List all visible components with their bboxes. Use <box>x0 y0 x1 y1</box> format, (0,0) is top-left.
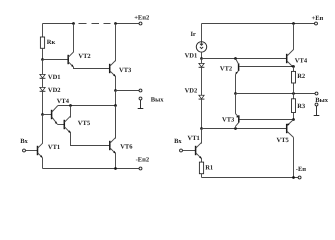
diode VD2 right <box>199 95 205 99</box>
node Rk bottom VT2 base <box>41 58 44 61</box>
svg-text:VD1: VD1 <box>185 52 198 59</box>
wire left top rail dashed <box>79 23 111 25</box>
transistor VT1 right <box>196 142 202 158</box>
wire VT3 collector up <box>115 24 117 62</box>
wire R1 to bottom rail <box>201 174 203 178</box>
wire left top rail solid <box>43 23 74 25</box>
wire VT2 emitter elbow to VT3 base <box>74 67 110 69</box>
terminal Vh right <box>180 149 183 152</box>
node bottom rail VT5 collector <box>292 176 295 179</box>
wire right bottom rail <box>202 177 299 179</box>
node right rail VT4 collector <box>292 22 295 25</box>
wire VT2 emitter down to output node <box>235 74 237 93</box>
diode VD1 left <box>40 74 46 78</box>
svg-text:VD2: VD2 <box>185 88 198 95</box>
current source Ig <box>196 42 206 52</box>
terminal Vyh left lower <box>139 97 142 100</box>
wire right top rail <box>202 23 315 25</box>
node right output R3 top <box>292 92 295 95</box>
transistor VT2 <box>68 52 73 67</box>
transistor VT4 <box>52 106 58 124</box>
wire VD2 to VT4 base node <box>42 91 44 114</box>
wire right output line <box>236 93 316 95</box>
svg-text:VT4: VT4 <box>295 57 308 64</box>
wire R2 bottom lead <box>293 83 295 94</box>
transistor VT3 <box>110 61 116 77</box>
wire VT1 emitter to R1 <box>201 158 203 162</box>
transistor VT4 right <box>287 50 294 68</box>
resistor Rk <box>40 37 44 48</box>
wire VT1 right base lead <box>183 150 196 152</box>
terminal -Ep <box>298 176 301 179</box>
wire VT4 base lead <box>43 114 52 116</box>
node R3 bottom <box>292 118 295 121</box>
wire node A to VT4 base <box>202 58 287 60</box>
diode VD1 right <box>199 63 205 67</box>
wire R3 bottom lead <box>293 113 295 120</box>
wire rail down to Rk <box>42 24 44 38</box>
diode VD2 left <box>40 87 46 91</box>
node VT3 collector <box>234 127 237 130</box>
wire output node down to VT3 emitter <box>235 94 237 114</box>
wire left bottom rail <box>43 168 140 170</box>
wire VT1 base lead <box>25 150 37 152</box>
svg-text:VT3: VT3 <box>119 67 132 74</box>
wire R3 top lead <box>293 94 295 99</box>
wire output node down to collector line <box>115 91 117 106</box>
wire node A into VD1 <box>201 59 203 64</box>
wire Rk to VT2 base node <box>42 48 44 59</box>
node right output left <box>234 92 237 95</box>
svg-text:Вх: Вх <box>174 138 182 145</box>
transistor VT3 mirrored pnp <box>236 114 239 127</box>
wire VD1 to VD2 <box>201 67 203 95</box>
wire current source to node A <box>201 52 203 58</box>
wire VT6 emitter down to rail <box>115 152 117 168</box>
wire rail down into current source <box>201 24 203 46</box>
transistor VT2 mirrored npn <box>236 59 239 75</box>
wire VT2 base to R2 top node <box>239 66 293 68</box>
svg-text:Iг: Iг <box>191 31 197 38</box>
wire VT4 collector up to rail <box>293 24 295 50</box>
wire VT6 collector up <box>115 106 117 139</box>
svg-text:-Eп2: -Eп2 <box>136 157 150 164</box>
node VT5 collector <box>69 104 72 107</box>
svg-text:+Eп2: +Eп2 <box>134 14 149 21</box>
svg-text:VD1: VD1 <box>48 74 61 81</box>
terminal Vyh left upper <box>139 89 142 92</box>
node R2 top <box>292 65 295 68</box>
wire output node to terminal <box>116 90 140 92</box>
svg-text:VT3: VT3 <box>222 117 235 124</box>
svg-text:-Eп: -Eп <box>296 166 307 173</box>
resistor R3 <box>292 99 296 113</box>
svg-text:VT2: VT2 <box>220 66 232 73</box>
wire node B to VT5 base <box>202 128 287 130</box>
terminal Vh left <box>23 149 26 152</box>
wire collector line down to VT6 <box>115 106 117 138</box>
svg-text:Вых: Вых <box>315 97 328 104</box>
svg-text:Вых: Вых <box>151 97 164 104</box>
node A right VD1 top <box>200 57 203 60</box>
svg-text:R3: R3 <box>297 103 306 110</box>
svg-text:R2: R2 <box>297 73 305 80</box>
wire left top rail to terminal <box>116 23 140 25</box>
terminal -Ep2 <box>139 167 142 170</box>
node B right VT5 base line <box>200 127 203 130</box>
svg-text:VT1: VT1 <box>188 135 200 142</box>
terminal +Ep2 <box>139 22 142 25</box>
wire VT3 collector to node <box>235 126 237 128</box>
svg-text:VT1: VT1 <box>48 144 60 151</box>
transistor VT5 right pnp <box>287 120 294 138</box>
svg-text:VT4: VT4 <box>57 98 70 105</box>
wire VT2 base node to VD1 <box>42 60 44 75</box>
common stub left output <box>138 100 144 109</box>
wire VT3 base to R3 bottom node <box>239 119 293 121</box>
terminal Vyh right upper <box>315 92 318 95</box>
svg-text:VT5: VT5 <box>277 137 290 144</box>
svg-text:VT6: VT6 <box>120 143 133 150</box>
wire VT4 emitter to VT5 base <box>57 124 64 126</box>
wire R2 top lead <box>293 67 295 72</box>
node collector line right <box>114 104 117 107</box>
transistor VT6 <box>110 138 116 154</box>
wire VT1 emitter down to rail <box>42 158 44 169</box>
node bottom rail VT6 emitter <box>114 167 117 170</box>
svg-text:VD2: VD2 <box>48 87 61 94</box>
svg-text:Вх: Вх <box>20 138 28 145</box>
wire VT1 collector up to node B <box>201 129 203 144</box>
wire VT2 collector up <box>73 24 75 53</box>
wire VD2 to node B <box>201 99 203 128</box>
wire VT1 collector up to VT4 base node <box>42 115 44 144</box>
resistor R2 <box>292 71 296 83</box>
wire VT4 VT5 collector line <box>58 105 116 107</box>
svg-text:VT5: VT5 <box>78 120 91 127</box>
node left rail VT2 collector <box>72 22 75 25</box>
wire VT5 collector up <box>70 106 72 118</box>
svg-text:+Eп: +Eп <box>312 15 324 22</box>
node left output <box>114 89 117 92</box>
node VT4 base <box>41 113 44 116</box>
wire VT2 base lead <box>43 59 69 61</box>
node VT2 collector <box>234 57 237 60</box>
terminal Vyh right lower <box>315 103 318 106</box>
terminal +Ep <box>315 22 318 25</box>
wire VT5 collector down to rail <box>293 137 295 177</box>
transistor VT1 <box>38 143 43 157</box>
node left rail VT3 collector <box>114 22 117 25</box>
wire VD1 to VD2 <box>42 78 44 87</box>
wire VT3 emitter down to output node <box>115 76 117 91</box>
transistor VT5 <box>64 116 70 133</box>
resistor R1 <box>199 162 203 174</box>
svg-text:VT2: VT2 <box>78 53 90 60</box>
wire VT5 emitter down and to VT6 base <box>71 132 110 146</box>
svg-text:R1: R1 <box>205 164 213 171</box>
svg-text:Rк: Rк <box>47 39 56 46</box>
common stub right output <box>314 106 320 116</box>
